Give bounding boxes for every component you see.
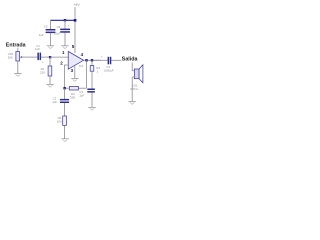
svg-text:8Ohm: 8Ohm [130,87,138,91]
svg-text:1µF: 1µF [39,33,44,37]
svg-text:Entrada: Entrada [6,43,26,49]
capacitor C1 [35,44,44,64]
wire zobel upper [91,60,93,65]
wire C1 to node [41,56,50,58]
ground below VR1 [14,74,21,77]
svg-text:+: + [42,60,44,64]
wire output to C4 to Salida [93,59,108,61]
ground below C5 [47,46,54,49]
wire Salida drop [131,63,133,71]
node feedback junction [63,87,65,89]
ground below R1 [46,84,53,87]
wire R4 to C3 [91,71,93,88]
wire output [84,59,101,61]
wire speaker to ground [131,77,133,101]
svg-text:+: + [101,55,103,59]
resistor R2 [57,116,67,125]
capacitor C4 [101,55,114,73]
potentiometer VR1 [8,52,22,61]
wire pot bottom [17,61,19,73]
resistor R1 [40,66,52,76]
node junction rail-C6 [64,19,66,21]
resistor R3 [69,86,78,99]
wire speaker pin bottom [132,76,134,78]
svg-text:100: 100 [57,120,62,124]
svg-text:C5: C5 [44,24,48,28]
wire pin3 to ground [74,66,76,78]
wire feedback vertical [85,60,87,88]
svg-text:C6: C6 [57,25,61,29]
svg-text:1µF: 1µF [52,100,57,104]
wire speaker pin top [132,70,134,72]
wire C5 lower [50,33,52,46]
node output junction zobel [91,59,93,61]
wire pin2 from triangle [65,65,69,88]
speaker LS1 [130,65,143,91]
capacitor C5 [39,24,56,37]
op-amp IC1 [60,44,83,73]
ground below LS1 [129,102,136,105]
wire C5 branch upper [50,20,52,29]
wire C6 branch upper [64,20,66,29]
node junction rail-V+ [74,19,77,22]
capacitor C3 [78,89,95,98]
svg-text:IC1: IC1 [79,64,84,68]
wire Entrada drop [17,48,19,52]
wire C6 lower [64,33,66,46]
wire R1 lower [49,76,51,84]
svg-text:+: + [70,95,72,99]
wire C3 to ground [91,93,93,108]
svg-text:22K: 22K [40,71,45,75]
wire node to pin1 [50,56,68,58]
node output junction feedback [85,59,87,61]
wire R1 upper [49,57,51,66]
wire R2 to ground [64,125,66,138]
svg-text:+9V: +9V [73,3,80,7]
capacitor C6 [54,24,70,36]
power tick [74,7,76,9]
svg-text:1000µF: 1000µF [104,69,114,73]
svg-text:50K: 50K [8,56,13,60]
ground below R2 [61,139,68,142]
capacitor C2 [52,95,72,104]
svg-text:10µF: 10µF [54,32,61,36]
ground below IC1 pin3 [71,79,78,82]
wire feedback horizontal right [78,87,86,89]
svg-text:.1µF: .1µF [78,93,84,97]
wire node to C2 [64,88,66,99]
ground below C3 [88,107,95,110]
wire V+ vertical [74,10,76,54]
node input junction [49,56,51,58]
svg-text:1µF: 1µF [35,47,40,51]
svg-text:Salida: Salida [122,56,138,62]
wire wiper to C1 [22,56,38,58]
resistor R4 [90,66,100,74]
wire C2 to R2 [64,103,66,116]
svg-text:+: + [68,24,70,28]
ground below C6 [61,46,68,49]
wire R3 to node [65,87,70,89]
wire supply rail [51,19,76,21]
